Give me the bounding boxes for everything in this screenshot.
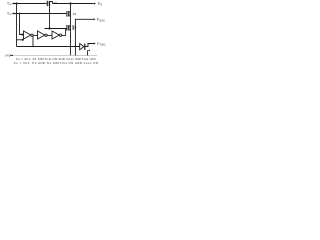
transistor P2	[67, 11, 71, 17]
svg-text:B1: B1	[9, 4, 12, 6]
node junction dot VB2 drop	[19, 13, 21, 15]
wire top rail right segment (P1 to Fo arrow)	[52, 3, 93, 5]
svg-text:Fo = Vb2: P2 AND N1 SWITCH ON: Fo = Vb2: P2 AND N1 SWITCH ON AND Fosc O…	[14, 61, 98, 65]
op-amp U1 inverter	[24, 31, 31, 39]
wire N2 drain to Fosc arrow	[75, 19, 93, 25]
svg-text:GND: GND	[5, 53, 11, 57]
op-amp U3 inverter	[52, 31, 59, 39]
arrowhead Fosc output	[94, 43, 96, 45]
node junction dot P1 drain on gate rail	[48, 27, 50, 29]
wire gate node horizontal (N1 gate rail)	[45, 28, 67, 30]
transistor P1	[47, 1, 52, 6]
wire U3 output up to gate node	[62, 29, 66, 36]
wire top rail left segment (VB1 to P1 gate)	[14, 3, 47, 5]
arrowhead at VB2 input	[12, 13, 14, 15]
transistor N2	[73, 25, 75, 30]
svg-text:P2: P2	[73, 12, 77, 16]
wire feedback stub to U1 lower input	[17, 39, 23, 41]
caption line 2	[14, 61, 98, 65]
node VB2 label	[7, 12, 13, 17]
node junction dot right vertical on top rail	[69, 2, 71, 4]
node junction dot at top of left vertical	[15, 2, 17, 4]
node GND label	[5, 53, 11, 57]
transistor N3 source lead to ground with arrow	[87, 50, 89, 55]
node Fosc label (mid right)	[97, 18, 105, 23]
node Fo label	[98, 2, 102, 7]
arrowhead Fosc output	[93, 18, 95, 20]
svg-text:OSC: OSC	[100, 42, 106, 46]
wire N2 source to ground	[74, 30, 76, 56]
wire left vertical from top rail down to bottom wire	[16, 4, 18, 47]
svg-text:OSC: OSC	[99, 18, 105, 22]
wire right vertical (P2/N1 branch)	[70, 4, 72, 56]
node junction dot U1 lower input	[22, 39, 24, 41]
arrowhead at VB1 input	[12, 3, 14, 5]
wire P1 drain vertical	[49, 6, 51, 29]
op-amp U4 output buffer	[80, 44, 84, 50]
wire buffer out up to Fosc arrow	[85, 44, 93, 47]
ground rail	[11, 55, 98, 57]
op-amp U2 inverter	[38, 31, 45, 39]
node VB1 label	[7, 2, 13, 7]
ground rail end dash	[10, 54, 13, 56]
wire bottom feedback rail	[17, 46, 80, 48]
transistor N1	[67, 25, 71, 31]
wire U2 out to U3 in	[47, 34, 52, 36]
arrowhead Fo output	[94, 3, 96, 5]
svg-text:B2: B2	[9, 14, 12, 16]
svg-text:O: O	[100, 4, 102, 7]
node Fosc label	[97, 42, 105, 47]
wire VB2 vertical drop to inverter input	[20, 14, 24, 35]
wire U1 out to U2 in	[33, 34, 37, 36]
wire U1 output drop to bottom rail	[32, 36, 34, 46]
node junction dot at inverter U1 input	[21, 33, 23, 35]
wire VB2 horizontal to P2 gate	[14, 13, 66, 15]
caption line 1	[16, 57, 96, 61]
